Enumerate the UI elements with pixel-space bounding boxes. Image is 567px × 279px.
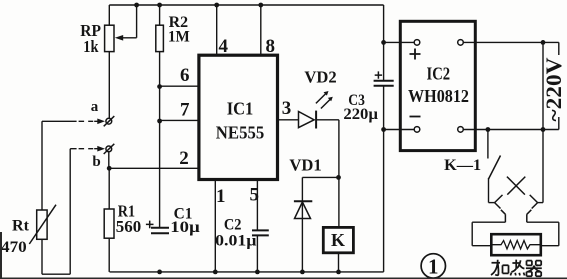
wire IC2 minus input bbox=[384, 129, 415, 131]
svg-text:C2: C2 bbox=[224, 216, 242, 233]
wire VCC right drop (through C3) bbox=[383, 5, 385, 272]
thermistor Rt bbox=[1, 121, 70, 274]
op-amp IC1 NE555 box bbox=[199, 55, 278, 179]
heater box with resistor element bbox=[491, 234, 541, 255]
connector plug right bbox=[527, 195, 543, 222]
wire AC right vertical bbox=[542, 42, 544, 202]
svg-text:VD2: VD2 bbox=[304, 68, 336, 87]
svg-text:NE555: NE555 bbox=[216, 122, 265, 142]
power module IC2 WH0812 box bbox=[400, 21, 475, 150]
svg-text:560: 560 bbox=[116, 217, 141, 236]
wire IC2 plus input bbox=[384, 41, 415, 43]
wire pin 5 bbox=[249, 180, 259, 272]
svg-text:7: 7 bbox=[180, 100, 190, 121]
svg-text:1: 1 bbox=[216, 186, 226, 207]
svg-text:1M: 1M bbox=[168, 28, 190, 45]
svg-text:VD1: VD1 bbox=[289, 156, 321, 175]
relay K box bbox=[323, 227, 353, 272]
terminal circle AC bottom bbox=[458, 127, 464, 133]
svg-text:10µ: 10µ bbox=[170, 219, 200, 236]
minus sign bbox=[410, 116, 421, 118]
wire pin 1 bbox=[215, 180, 225, 272]
resistor R1 bbox=[104, 168, 141, 272]
wire bottom rail GND bbox=[110, 271, 384, 273]
wire pin 4 bbox=[217, 5, 229, 57]
terminal circle minus bbox=[414, 127, 420, 133]
svg-text:~220V: ~220V bbox=[541, 57, 566, 121]
svg-text:6: 6 bbox=[180, 65, 190, 86]
capacitor C3 bbox=[343, 71, 393, 122]
wire pin 2 bbox=[109, 148, 200, 169]
wire AC bottom bbox=[463, 117, 559, 130]
node a bbox=[42, 99, 114, 126]
circled figure number 1 bbox=[421, 254, 445, 279]
svg-text:5: 5 bbox=[249, 184, 259, 205]
svg-text:470: 470 bbox=[1, 239, 27, 256]
wire AC top bbox=[463, 42, 559, 55]
wire heater loop left bbox=[472, 222, 505, 246]
node b bbox=[70, 144, 114, 170]
wire pin 7 bbox=[160, 100, 200, 121]
crossed plug pins X bbox=[507, 177, 525, 195]
svg-text:a: a bbox=[91, 99, 99, 115]
svg-text:1k: 1k bbox=[83, 37, 99, 56]
scan artifact bottom edge bbox=[0, 277, 567, 279]
wire pin 8 bbox=[261, 5, 275, 57]
connector plug left bbox=[489, 195, 506, 222]
svg-text:220µ: 220µ bbox=[343, 106, 378, 123]
svg-text:WH0812: WH0812 bbox=[408, 86, 469, 106]
svg-text:K: K bbox=[331, 230, 345, 250]
terminal circle AC top bbox=[458, 40, 464, 46]
capacitor C2 bbox=[215, 216, 269, 249]
wire pin 6 bbox=[160, 65, 200, 86]
diode VD1 bbox=[289, 156, 338, 272]
svg-text:b: b bbox=[92, 154, 100, 170]
potentiometer RP bbox=[80, 5, 136, 118]
svg-text:K—1: K—1 bbox=[444, 157, 481, 174]
capacitor C1 bbox=[146, 205, 200, 236]
label heater (Chinese) bbox=[491, 260, 542, 277]
LED VD2 bbox=[299, 68, 339, 129]
wire pin 3 bbox=[278, 98, 299, 120]
svg-text:8: 8 bbox=[265, 36, 275, 57]
svg-text:0.01µ: 0.01µ bbox=[215, 232, 256, 249]
svg-text:2: 2 bbox=[179, 148, 189, 169]
svg-text:3: 3 bbox=[282, 98, 292, 119]
svg-text:IC2: IC2 bbox=[427, 63, 451, 83]
relay contact K-1 bbox=[444, 130, 500, 203]
svg-text:1: 1 bbox=[428, 254, 439, 278]
svg-text:Rt: Rt bbox=[12, 218, 30, 235]
svg-text:IC1: IC1 bbox=[227, 99, 254, 119]
terminal circle plus bbox=[414, 40, 420, 46]
wire heater loop right bbox=[527, 222, 559, 246]
wire LED output drop to relay bbox=[338, 120, 340, 228]
plus sign bbox=[410, 49, 421, 60]
svg-text:4: 4 bbox=[219, 36, 229, 57]
wire top rail VCC bbox=[109, 4, 383, 6]
resistor R2 bbox=[156, 5, 190, 227]
scan artifact left edge bbox=[0, 232, 2, 279]
